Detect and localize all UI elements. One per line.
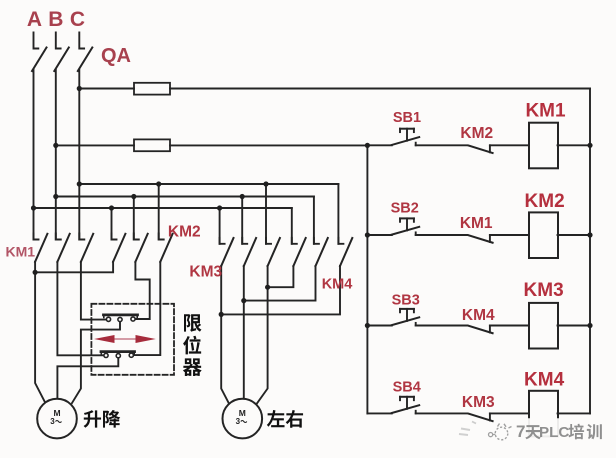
wire KM1 pole2 output to limit switch lower left	[57, 262, 104, 356]
contactor contact KM1 pole 3	[79, 234, 84, 240]
pushbutton SB3	[392, 309, 419, 326]
node junction	[77, 181, 82, 186]
node junction	[263, 181, 268, 186]
wire bus phase C (y=184)	[79, 183, 338, 185]
limit switch SQ-lower terminal 3	[129, 353, 133, 357]
wire KM3 pole2 output to motor M2 centre	[243, 266, 245, 399]
pushbutton SB1	[392, 129, 419, 146]
wire rung 2 middle	[416, 234, 468, 236]
node junction	[109, 205, 114, 210]
wire drop to KM3 pole 2	[241, 197, 243, 244]
contactor contact KM4 pole 1	[292, 238, 297, 244]
contactor contact KM2 pole 3	[159, 234, 164, 240]
limit switch SQ-lower bridge bar	[101, 350, 135, 353]
wire drop to KM3 pole 3	[265, 184, 267, 244]
wire drop to KM3 pole 1	[219, 208, 221, 244]
wire limit switch upper middle to motor M1 right	[72, 321, 120, 403]
limit switch SQ-lower terminal 2	[116, 354, 120, 358]
contactor contact KM3 pole 2	[242, 238, 247, 244]
wire KM1 pole3 output to limit switch upper left	[81, 262, 107, 320]
svg-text:B: B	[48, 8, 63, 31]
svg-text:KM4: KM4	[462, 307, 495, 324]
node junction	[587, 232, 592, 237]
svg-text:KM4: KM4	[322, 277, 353, 293]
svg-text:KM1: KM1	[6, 244, 36, 260]
contactor contact KM4 pole 2	[314, 238, 319, 244]
svg-text:KM3: KM3	[189, 264, 222, 281]
svg-text:KM2: KM2	[460, 125, 493, 142]
NC interlock contact on rung 2	[469, 235, 493, 243]
wire rung 1 to coil	[490, 144, 529, 146]
wire phase C vertical	[78, 70, 80, 240]
svg-text:KM1: KM1	[525, 101, 566, 122]
node junction	[77, 86, 82, 91]
NC interlock contact on rung 3	[469, 326, 493, 334]
limit switch SQ-upper terminal 1	[106, 317, 110, 321]
motor M2 (traverse)	[223, 399, 263, 439]
contactor contact KM1 pole 1	[34, 234, 39, 240]
wire drop to KM2 pole 1	[111, 208, 113, 240]
wire rung 3 middle	[416, 325, 468, 327]
QA switch pole A: terminal hook	[34, 33, 39, 49]
svg-text:QA: QA	[101, 45, 131, 67]
wire phase B vertical	[55, 70, 57, 240]
watermark background blob	[495, 418, 612, 451]
wire fuse line 2 to control left rail	[170, 144, 367, 146]
wire KM4 pole1 cross-connect	[268, 266, 294, 287]
node junction	[53, 143, 58, 148]
wire KM4 pole3 cross-connect	[221, 266, 340, 314]
contactor contact KM1 pole 2	[56, 234, 61, 240]
limit switch SQ-upper terminal 3	[131, 317, 135, 321]
node junction	[587, 323, 592, 328]
wire rung 1 coil to right rail	[558, 144, 591, 146]
coil KM4	[529, 391, 558, 437]
pushbutton SB4	[392, 397, 419, 414]
node junction	[217, 205, 222, 210]
wire KM4 pole2 cross-connect	[244, 266, 316, 301]
node junction	[241, 298, 246, 303]
wire KM3 pole3 output to motor M2 right	[257, 266, 268, 404]
pushbutton SB2	[392, 218, 419, 235]
svg-text:KM1: KM1	[460, 215, 493, 232]
coil KM3	[529, 303, 558, 349]
node junction	[219, 312, 224, 317]
svg-text:3: 3	[50, 417, 55, 426]
svg-text:C: C	[70, 8, 85, 31]
label 左右 (traverse motor)	[267, 410, 285, 427]
fuse FU2	[134, 139, 170, 151]
limit switch enclosure (dashed)	[91, 304, 174, 375]
QA switch pole C: blade	[78, 48, 93, 72]
svg-text:SB1: SB1	[393, 110, 421, 126]
QA switch pole C: terminal hook	[79, 33, 84, 49]
svg-text:3: 3	[236, 417, 241, 426]
watermark camera icon	[459, 422, 512, 440]
wire fuse line 1 (from phase C)	[79, 88, 134, 90]
node junction	[53, 194, 58, 199]
QA switch pole B: blade	[54, 48, 69, 72]
wire rung 3 coil to right rail	[558, 325, 591, 327]
wire KM2 pole1 output cross-connect	[35, 262, 113, 273]
wire fuse line 2 (from phase B)	[56, 144, 134, 146]
wire drop to KM4 pole 3	[337, 184, 339, 244]
node junction	[31, 205, 36, 210]
wire phase A vertical	[33, 70, 35, 240]
node junction	[587, 143, 592, 148]
wire rung 2 to coil	[490, 234, 529, 236]
limit switch travel arrow	[94, 335, 156, 343]
svg-text:KM2: KM2	[168, 224, 201, 241]
label 升降 (hoist motor)	[84, 410, 101, 428]
contactor contact KM3 pole 1	[220, 238, 225, 244]
wire rung 1 middle	[416, 144, 468, 146]
wire bus phase B (y=196.5)	[56, 196, 314, 198]
wire rung 4 middle	[416, 412, 468, 414]
wire drop to KM4 pole 2	[313, 197, 315, 244]
node junction	[265, 285, 270, 290]
wire rung 3 to coil	[490, 325, 529, 327]
label 限位器 (limit device)	[184, 314, 202, 332]
contactor contact KM2 pole 1	[112, 234, 117, 240]
wire rung 2 coil to right rail	[558, 234, 591, 236]
wire drop to KM2 pole 3	[158, 184, 160, 240]
contactor contact KM3 pole 3	[266, 238, 271, 244]
fuse FU1	[134, 83, 170, 95]
wire rung 3 lead from left rail	[367, 325, 391, 327]
svg-text:SB4: SB4	[393, 380, 421, 396]
wire rung 4 lead from left rail	[367, 412, 391, 414]
node junction	[240, 194, 245, 199]
coil KM2	[529, 212, 558, 258]
node junction	[156, 181, 161, 186]
QA switch pole B: terminal hook	[56, 33, 61, 49]
NC interlock contact on rung 4	[469, 413, 493, 421]
limit switch SQ-upper terminal 2	[118, 317, 122, 321]
wire rung 4 to coil	[490, 412, 529, 414]
node junction	[365, 323, 370, 328]
svg-text:KM2: KM2	[525, 191, 565, 212]
node junction	[365, 232, 370, 237]
wire fuse line 1 to right rail	[170, 88, 590, 90]
wire rung 2 lead from left rail	[367, 234, 391, 236]
wire control left rail	[366, 145, 368, 413]
node junction	[131, 194, 136, 199]
coil KM1	[529, 123, 558, 169]
node junction	[365, 143, 370, 148]
wire KM3 pole1 output to motor M2 left	[221, 266, 229, 404]
wire bus phase A (y=208)	[34, 207, 292, 209]
contactor contact KM4 pole 3	[338, 238, 343, 244]
wire limit switch lower middle to motor M1 centre	[57, 358, 118, 400]
svg-text:A: A	[27, 8, 42, 31]
wire drop to KM2 pole 2	[133, 197, 135, 240]
limit switch SQ-lower terminal 1	[104, 353, 108, 357]
svg-text:KM3: KM3	[462, 394, 495, 411]
wire rung 4 coil to right rail	[558, 412, 591, 414]
wire control right rail	[589, 89, 591, 414]
wire KM2 pole3 output to limit switch lower right	[134, 262, 161, 355]
svg-text:SB3: SB3	[392, 293, 420, 309]
wire KM1 pole1 output to motor M1	[35, 262, 45, 402]
wire KM2 pole2 output to limit switch upper right	[135, 262, 150, 319]
svg-text:KM4: KM4	[524, 370, 565, 391]
contactor contact KM2 pole 2	[134, 234, 139, 240]
svg-text:KM3: KM3	[524, 280, 564, 301]
svg-text:SB2: SB2	[391, 201, 419, 217]
wire rung 1 lead from left rail	[367, 144, 391, 146]
motor M1 (hoist)	[37, 399, 77, 439]
limit switch SQ-upper bridge bar	[104, 313, 138, 316]
svg-text:7: 7	[516, 422, 525, 441]
node junction	[33, 270, 38, 275]
wire drop to KM4 pole 1	[291, 208, 293, 244]
QA switch pole A: blade	[32, 48, 47, 72]
svg-text:PLC: PLC	[539, 424, 569, 441]
NC interlock contact on rung 1	[469, 145, 493, 153]
